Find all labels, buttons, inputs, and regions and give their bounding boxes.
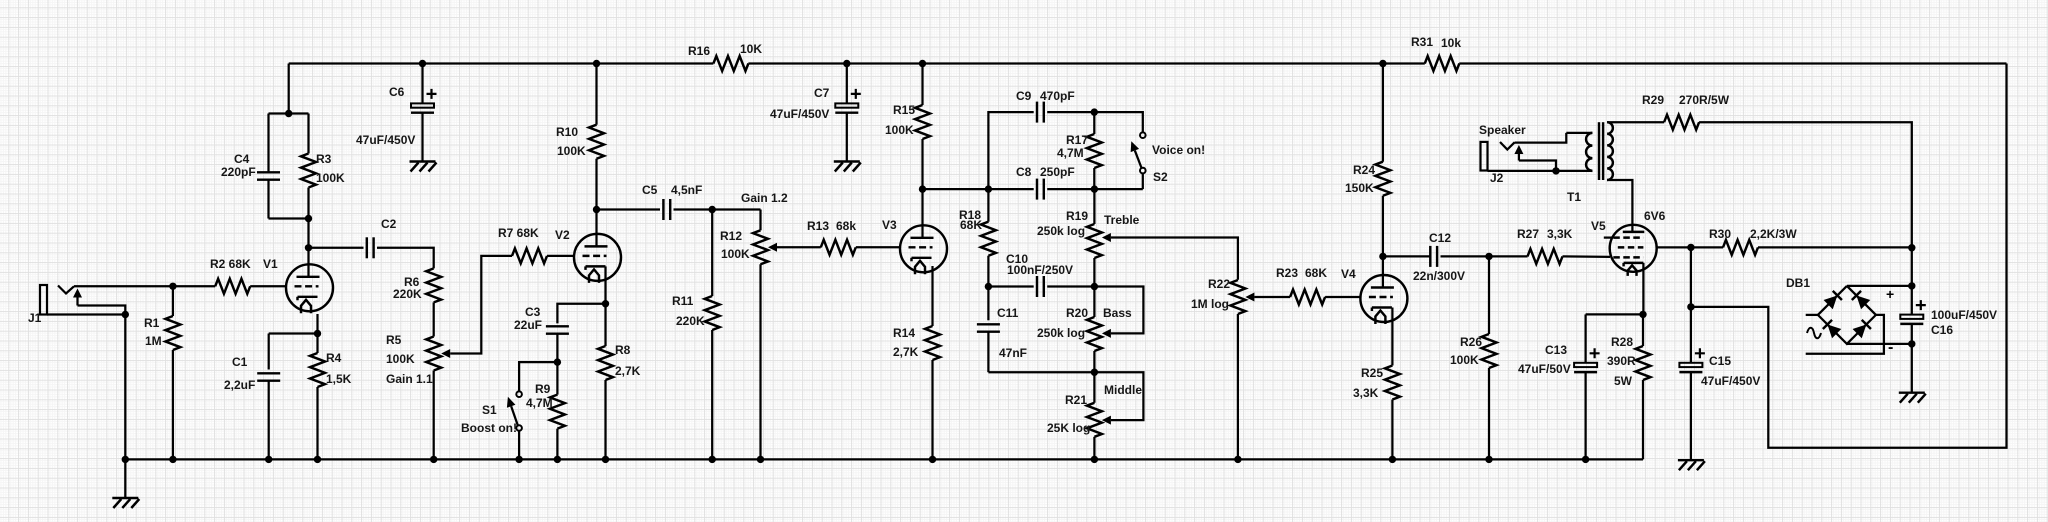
wire R22 wiper to R23 <box>1254 296 1290 298</box>
node C8 R17 R19 junction <box>1091 185 1098 192</box>
svg-text:100K: 100K <box>721 247 750 261</box>
wire J1 switch to sleeve <box>78 306 126 315</box>
wire J2 sleeve line <box>1488 170 1557 172</box>
svg-text:R29: R29 <box>1642 93 1664 107</box>
node R18 bottom <box>985 283 992 290</box>
wire S1 to rail <box>518 431 520 460</box>
wire middle wiper bracket <box>1094 372 1143 420</box>
node C6 top <box>419 60 426 67</box>
svg-text:100K: 100K <box>885 123 914 137</box>
svg-text:1M log: 1M log <box>1191 297 1229 311</box>
svg-text:R25: R25 <box>1361 366 1383 380</box>
wire R5 wiper to R7 <box>450 256 512 354</box>
svg-text:C13: C13 <box>1545 343 1567 357</box>
wire R5 bottom <box>433 371 435 460</box>
svg-text:S2: S2 <box>1153 170 1168 184</box>
wire R30 to C16 node <box>1758 246 1912 248</box>
svg-text:1,5K: 1,5K <box>326 372 352 386</box>
node R26 bottom <box>1485 456 1492 463</box>
capacitor C2 <box>366 237 368 258</box>
svg-text:220K: 220K <box>676 314 705 328</box>
capacitor C8 <box>1036 179 1038 200</box>
node R20 R21 junction <box>1091 369 1098 376</box>
svg-text:S1: S1 <box>482 403 497 417</box>
svg-text:R22: R22 <box>1208 277 1230 291</box>
svg-text:47uF/450V: 47uF/450V <box>1701 374 1760 388</box>
resistor R28 <box>1642 314 1644 346</box>
svg-text:C6: C6 <box>389 85 405 99</box>
svg-text:R26: R26 <box>1460 335 1482 349</box>
svg-text:47uF/450V: 47uF/450V <box>770 107 829 121</box>
svg-text:4,7M: 4,7M <box>526 396 553 410</box>
wire C9 to R17 <box>1047 111 1094 113</box>
svg-text:47nF: 47nF <box>999 346 1027 360</box>
svg-text:68k: 68k <box>836 219 856 233</box>
wire R13 to V3 grid <box>856 246 901 248</box>
node C7 top <box>843 60 850 67</box>
wire V3 anode <box>921 189 923 238</box>
svg-text:C2: C2 <box>381 217 397 231</box>
wire V2 anode to C5 <box>597 208 661 210</box>
wire J2 tip to T1 <box>1515 133 1567 143</box>
wire cathode to C3 <box>557 304 605 324</box>
resistor R17 <box>1087 134 1102 168</box>
wire V2 anode <box>595 210 597 247</box>
svg-text:R24: R24 <box>1353 163 1375 177</box>
wire C4-R3 bottom link <box>269 217 309 219</box>
resistor R9 <box>556 362 558 395</box>
wire screen node down to C15 <box>1690 247 1692 307</box>
node J1 sleeve junction <box>122 311 129 318</box>
node R22 bottom <box>1234 456 1241 463</box>
svg-text:150K: 150K <box>1345 181 1374 195</box>
svg-text:R10: R10 <box>556 125 578 139</box>
svg-text:100nF/250V: 100nF/250V <box>1007 263 1073 277</box>
wire R29 to B+ drop <box>1699 122 1912 248</box>
svg-text:R31: R31 <box>1411 35 1433 49</box>
tube V5 6V6 <box>1610 225 1657 272</box>
svg-text:C15: C15 <box>1709 354 1731 368</box>
resistor R8 <box>604 304 606 346</box>
wire V4 cathode <box>1391 308 1393 366</box>
svg-text:10K: 10K <box>740 42 762 56</box>
wire R12 wiper to R13 <box>777 246 821 248</box>
capacitor C4 <box>267 114 269 173</box>
svg-text:R20: R20 <box>1066 306 1088 320</box>
node C16 top junction <box>1908 244 1915 251</box>
diode DB1 upper-right <box>1856 295 1870 309</box>
node R12 bottom <box>757 456 764 463</box>
resistor R18 <box>987 189 989 222</box>
switch S2 <box>1140 132 1146 138</box>
node R24 top <box>1379 60 1386 67</box>
resistor R3 <box>307 114 309 154</box>
node R5 bottom <box>430 456 437 463</box>
svg-text:R19: R19 <box>1066 209 1088 223</box>
node V4 anode junction <box>1379 253 1386 260</box>
svg-text:R11: R11 <box>672 294 694 308</box>
svg-text:270R/5W: 270R/5W <box>1679 93 1730 107</box>
capacitor C16 <box>1911 248 1913 315</box>
resistor R16 <box>713 56 748 71</box>
resistor R6 <box>426 268 441 302</box>
wire J1 sleeve line <box>47 313 125 315</box>
capacitor C15 <box>1690 307 1692 363</box>
wire bass wiper bracket <box>1094 287 1143 334</box>
capacitor C3 <box>546 325 569 327</box>
wire V3 anode to tone stack <box>923 188 989 190</box>
svg-text:R14: R14 <box>893 326 915 340</box>
wire T1 secondary top lead <box>1566 132 1592 134</box>
svg-text:Speaker: Speaker <box>1479 123 1526 137</box>
node C13 bottom <box>1582 456 1589 463</box>
svg-text:R4: R4 <box>326 351 342 365</box>
jack J2 sleeve <box>1481 142 1488 171</box>
jack J1 tip contact <box>58 286 74 294</box>
wire treble wiper <box>1111 238 1238 280</box>
node C15 top junction <box>1687 303 1694 310</box>
diode DB1 lower-right <box>1853 324 1867 338</box>
node R14 bottom <box>929 456 936 463</box>
resistor R1 <box>172 286 174 316</box>
svg-text:10k: 10k <box>1441 36 1461 50</box>
resistor R15 <box>921 64 923 106</box>
node S1 bottom <box>515 456 522 463</box>
node R1 top <box>169 283 176 290</box>
wire R27 to V5 grid <box>1563 255 1611 258</box>
svg-text:Middle: Middle <box>1104 383 1142 397</box>
switch S1 <box>516 391 522 397</box>
svg-text:R17: R17 <box>1066 133 1088 147</box>
tube V2 <box>574 234 621 281</box>
node DB1 plus junction <box>1908 282 1915 289</box>
node R21 bottom <box>1091 456 1098 463</box>
svg-text:4,5nF: 4,5nF <box>671 183 702 197</box>
ground <box>124 459 126 498</box>
resistor R10 <box>595 64 597 125</box>
svg-text:6V6: 6V6 <box>1644 209 1666 223</box>
value labels <box>28 35 1997 435</box>
node V2 cathode junction <box>602 300 609 307</box>
svg-text:Voice on!: Voice on! <box>1152 143 1205 157</box>
jack J2 tip contact <box>1500 142 1515 150</box>
DB1 ac squiggle <box>1807 328 1821 339</box>
potentiometer R12 <box>753 230 768 264</box>
ground <box>410 160 436 162</box>
wire R6 to R5 <box>433 302 435 336</box>
svg-text:R13: R13 <box>807 219 829 233</box>
svg-text:47uF/50V: 47uF/50V <box>1518 362 1571 376</box>
rectifier DB1 outline <box>1818 286 1876 344</box>
resistor R14 <box>925 326 940 360</box>
node R9 bottom <box>554 456 561 463</box>
resistor R23 <box>1290 290 1325 305</box>
resistor R30 <box>1723 240 1758 255</box>
wire S2 to C8 line <box>1142 173 1144 189</box>
node R4 bottom <box>314 456 321 463</box>
node DB1 minus junction <box>1908 340 1915 347</box>
wire V4 anode <box>1382 256 1384 287</box>
wire T1 secondary bottom lead <box>1556 170 1592 172</box>
svg-text:R28: R28 <box>1611 335 1633 349</box>
potentiometer R20 bass <box>1093 287 1095 318</box>
svg-text:R30: R30 <box>1709 227 1731 241</box>
svg-text:100K: 100K <box>557 144 586 158</box>
jack J2 switch arrow <box>1518 153 1520 161</box>
svg-text:V2: V2 <box>555 228 570 242</box>
capacitor C1 <box>268 334 270 370</box>
transformer T1 primary coil <box>1607 122 1613 180</box>
svg-text:R1: R1 <box>144 316 160 330</box>
tube V4 <box>1360 275 1407 322</box>
jack J1 switch arrow <box>76 297 78 306</box>
svg-text:100K: 100K <box>1450 353 1479 367</box>
svg-text:R7 68K: R7 68K <box>498 226 539 240</box>
svg-text:C12: C12 <box>1429 231 1451 245</box>
svg-text:J1: J1 <box>28 311 42 325</box>
resistor R29 <box>1664 115 1699 130</box>
svg-text:250pF: 250pF <box>1040 165 1075 179</box>
transformer T1 secondary coil <box>1586 133 1592 171</box>
wire V4 anode to C12 <box>1383 255 1430 257</box>
node R10 top <box>593 60 600 67</box>
svg-text:3,3K: 3,3K <box>1547 227 1573 241</box>
wire DB1 ac input right loop <box>1806 315 1884 354</box>
svg-text:R16: R16 <box>688 44 710 58</box>
capacitor C10 <box>1036 276 1038 297</box>
svg-text:C4: C4 <box>234 152 250 166</box>
wire B+ left end drop <box>288 64 290 114</box>
svg-text:1M: 1M <box>145 334 162 348</box>
node tone stack left junction <box>985 185 992 192</box>
resistor R4 <box>316 334 318 354</box>
capacitor C12 <box>1429 246 1431 267</box>
svg-text:R8: R8 <box>615 343 631 357</box>
svg-text:T1: T1 <box>1567 190 1581 204</box>
node V1 anode C2 tee <box>305 244 312 251</box>
jack J1 sleeve <box>40 285 47 315</box>
potentiometer R21 middle <box>1093 372 1095 403</box>
node J2 sleeve junction <box>1552 167 1559 174</box>
svg-text:68K: 68K <box>1305 266 1327 280</box>
node C3 bottom junction <box>554 358 561 365</box>
node R19 R20 junction <box>1091 283 1098 290</box>
node R3 C4 bottom <box>305 215 312 222</box>
svg-text:R15: R15 <box>893 103 915 117</box>
diode DB1 lower-left <box>1827 324 1841 338</box>
resistor R26 <box>1488 256 1490 334</box>
svg-text:2,2K/3W: 2,2K/3W <box>1750 227 1797 241</box>
svg-text:DB1: DB1 <box>1786 276 1810 290</box>
svg-text:4,7M: 4,7M <box>1057 146 1084 160</box>
node V5 screen junction <box>1687 244 1694 251</box>
node R11 bottom <box>709 456 716 463</box>
node R15 top <box>919 60 926 67</box>
ground <box>834 160 860 162</box>
svg-text:Treble: Treble <box>1104 213 1140 227</box>
resistor R27 <box>1528 249 1563 264</box>
resistor R2 <box>215 279 250 294</box>
svg-text:R23: R23 <box>1276 266 1298 280</box>
ground <box>1899 391 1925 393</box>
svg-text:C1: C1 <box>232 355 248 369</box>
wire C10 to R19/R20 junction <box>1047 285 1094 287</box>
node R11 top <box>709 206 716 213</box>
svg-text:25K log: 25K log <box>1047 421 1090 435</box>
svg-text:C3: C3 <box>525 305 541 319</box>
svg-text:2,7K: 2,7K <box>615 364 641 378</box>
wire DB1 ac input left <box>1806 314 1818 316</box>
wire R2 to V1 grid <box>250 285 286 287</box>
svg-text:J2: J2 <box>1490 171 1504 185</box>
wire C2 to R6 <box>377 248 434 269</box>
node V3 anode junction <box>919 185 926 192</box>
node R1 bottom <box>169 456 176 463</box>
wire C8 to R19 <box>1047 188 1143 190</box>
transformer T1 core <box>1598 122 1600 180</box>
wire C4-R3 top link <box>269 112 309 114</box>
wire input to R2 <box>74 285 215 287</box>
wire to S1 <box>519 362 557 391</box>
wire C10 line <box>988 285 1033 287</box>
svg-text:C9: C9 <box>1016 89 1032 103</box>
wire V5 cathode <box>1642 263 1644 315</box>
svg-text:V5: V5 <box>1591 219 1606 233</box>
wire C8 line <box>988 188 1033 190</box>
capacitor C7 <box>846 64 848 104</box>
resistor R11 <box>711 210 713 297</box>
wire to R12 <box>759 210 761 231</box>
node R26 top <box>1485 253 1492 260</box>
svg-text:3,3K: 3,3K <box>1353 386 1379 400</box>
svg-text:2,7K: 2,7K <box>893 345 919 359</box>
svg-text:2,2uF: 2,2uF <box>224 378 255 392</box>
node R25 bottom <box>1389 456 1396 463</box>
wire DB1 minus output <box>1847 343 1912 345</box>
ground <box>1678 459 1704 461</box>
wire C12 to R26/R27 <box>1441 255 1528 257</box>
svg-text:47uF/450V: 47uF/450V <box>356 133 415 147</box>
svg-text:250k log: 250k log <box>1037 224 1085 238</box>
wire C9 branch <box>988 112 1033 189</box>
svg-text:Gain 1.1: Gain 1.1 <box>386 372 433 386</box>
svg-text:100K: 100K <box>316 171 345 185</box>
svg-text:C11: C11 <box>997 306 1019 320</box>
svg-text:470pF: 470pF <box>1040 89 1075 103</box>
resistor R24 <box>1382 64 1384 162</box>
svg-text:Gain 1.2: Gain 1.2 <box>741 191 788 205</box>
node V1 cathode junction <box>314 330 321 337</box>
capacitor C9 <box>1036 102 1038 123</box>
wire ground bottom rail <box>125 458 1643 460</box>
wire V1 anode <box>307 219 309 277</box>
potentiometer R5 <box>426 337 441 371</box>
wire V5 anode to T1 <box>1607 180 1632 232</box>
diode DB1 upper-left <box>1824 295 1838 309</box>
svg-text:R5: R5 <box>386 333 402 347</box>
svg-text:V1: V1 <box>263 257 278 271</box>
node C9 R17 junction <box>1091 108 1098 115</box>
wire C9 line to S2 <box>1094 112 1143 132</box>
wire V3 cathode <box>931 266 933 326</box>
wire C11 bottom link <box>988 371 1094 373</box>
svg-text:100uF/450V: 100uF/450V <box>1931 308 1997 322</box>
wire C5 to R11/R12 <box>674 208 761 210</box>
svg-text:-: - <box>1888 339 1893 356</box>
wire C13 top link <box>1586 313 1643 315</box>
svg-text:R27: R27 <box>1517 227 1539 241</box>
node B+ drop to R3/C4 <box>285 110 292 117</box>
svg-text:Boost on!: Boost on! <box>461 421 517 435</box>
capacitor C5 <box>662 199 664 220</box>
svg-text:+: + <box>1886 286 1894 302</box>
svg-text:R3: R3 <box>316 152 332 166</box>
svg-text:68K: 68K <box>960 218 982 232</box>
potentiometer R19 treble <box>1093 189 1095 224</box>
svg-text:R12: R12 <box>720 229 742 243</box>
svg-text:Bass: Bass <box>1103 306 1132 320</box>
wire T1 primary top to R29 <box>1607 121 1664 123</box>
svg-text:250k log: 250k log <box>1037 326 1085 340</box>
svg-text:R2 68K: R2 68K <box>210 257 251 271</box>
svg-text:22uF: 22uF <box>514 318 542 332</box>
node R28 top junction <box>1639 311 1646 318</box>
tube V3 <box>900 225 947 272</box>
svg-text:22n/300V: 22n/300V <box>1413 269 1465 283</box>
wire V1 anode to C2 <box>309 247 364 249</box>
wire B+ right side loop <box>1691 64 2007 448</box>
capacitor C6 <box>421 64 423 104</box>
svg-text:V4: V4 <box>1341 267 1356 281</box>
node C1 bottom <box>265 456 272 463</box>
wire V2 cathode <box>604 266 606 303</box>
svg-text:C5: C5 <box>642 183 658 197</box>
svg-text:C16: C16 <box>1931 323 1953 337</box>
svg-text:5W: 5W <box>1614 374 1633 388</box>
wire V1 cathode <box>316 314 318 334</box>
svg-text:R21: R21 <box>1065 393 1087 407</box>
svg-text:C7: C7 <box>814 86 830 100</box>
wire J2 switch to sleeve <box>1519 161 1556 171</box>
potentiometer R22 <box>1230 280 1245 314</box>
resistor R25 <box>1385 366 1400 400</box>
svg-text:220K: 220K <box>393 287 422 301</box>
wire V5 screen to R30 <box>1657 246 1724 248</box>
node ground rail left end <box>122 456 129 463</box>
svg-text:R9: R9 <box>535 382 551 396</box>
node R8 bottom <box>602 456 609 463</box>
tube V1 <box>286 264 333 311</box>
resistor R13 <box>821 240 856 255</box>
svg-text:C8: C8 <box>1016 165 1032 179</box>
svg-text:100K: 100K <box>386 352 415 366</box>
svg-text:220pF: 220pF <box>221 165 256 179</box>
wire R12 bottom <box>759 264 761 459</box>
svg-text:V3: V3 <box>882 218 897 232</box>
wire B+ top rail <box>289 62 714 64</box>
wire J1 sleeve to ground rail <box>124 315 126 460</box>
capacitor C11 <box>987 287 989 321</box>
wire R23 to V4 grid <box>1325 296 1360 298</box>
wire DB1 plus output <box>1847 285 1912 287</box>
resistor R7 <box>512 248 547 263</box>
svg-text:390R: 390R <box>1607 354 1636 368</box>
wire cathode to C1 <box>269 332 318 334</box>
wire R7 to V2 grid <box>547 255 574 257</box>
capacitor C13 <box>1584 314 1586 362</box>
resistor R31 <box>1425 56 1460 71</box>
node V2 anode junction <box>593 206 600 213</box>
